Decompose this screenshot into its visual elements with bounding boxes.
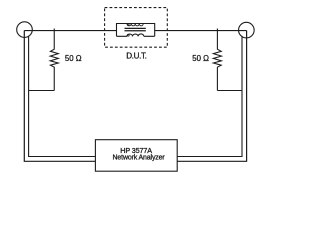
port P1 (left connector circle) [17,22,33,38]
svg-text:Network Analyzer: Network Analyzer [113,154,166,161]
wire: D.U.T. right lead to P2 (top right horizontal) [155,30,247,32]
label: D.U.T. [126,52,146,61]
label: HP 3577A (analyzer line 1) [120,146,152,155]
wire: inner right path (P2 shield down to analyzer right) [177,36,242,157]
svg-text:50 Ω: 50 Ω [65,54,82,63]
wire: R2 bottom jog to inner right wire [217,90,242,92]
wire: inner left path (P1 shield down to analyzer left) [29,36,96,157]
inductor L2 (bottom coil inline with D.U.T. bottom edge) [127,34,144,36]
label: Network Analyzer (analyzer line 2) [113,154,166,161]
D.U.T. dashed enclosure box [105,8,168,48]
label: R2 value 50 ohm [192,54,209,63]
inductor L1 (top coil inside D.U.T.) [127,24,143,26]
port P2 (right connector circle) [239,22,255,38]
resistor R1 (50 ohm left termination) [50,29,58,91]
svg-text:50 Ω: 50 Ω [192,54,209,63]
wire: outer left return path (P1 down and to analyzer left) [24,31,95,162]
label: R1 value 50 ohm [65,54,82,63]
svg-text:D.U.T.: D.U.T. [126,52,146,61]
wire: outer right return path (P2 down and to analyzer right) [177,31,246,162]
resistor R2 (50 ohm right termination) [213,29,221,91]
wire: P1 to D.U.T. left lead (top left horizontal) [24,30,116,32]
HP 3577A network analyzer box [95,140,177,172]
capacitor plates (middle lines inside D.U.T.) [125,28,146,30]
wire: R1 bottom jog to inner left wire [29,90,55,92]
D.U.T. crystal equivalent circuit body (rectangle) [117,24,155,37]
